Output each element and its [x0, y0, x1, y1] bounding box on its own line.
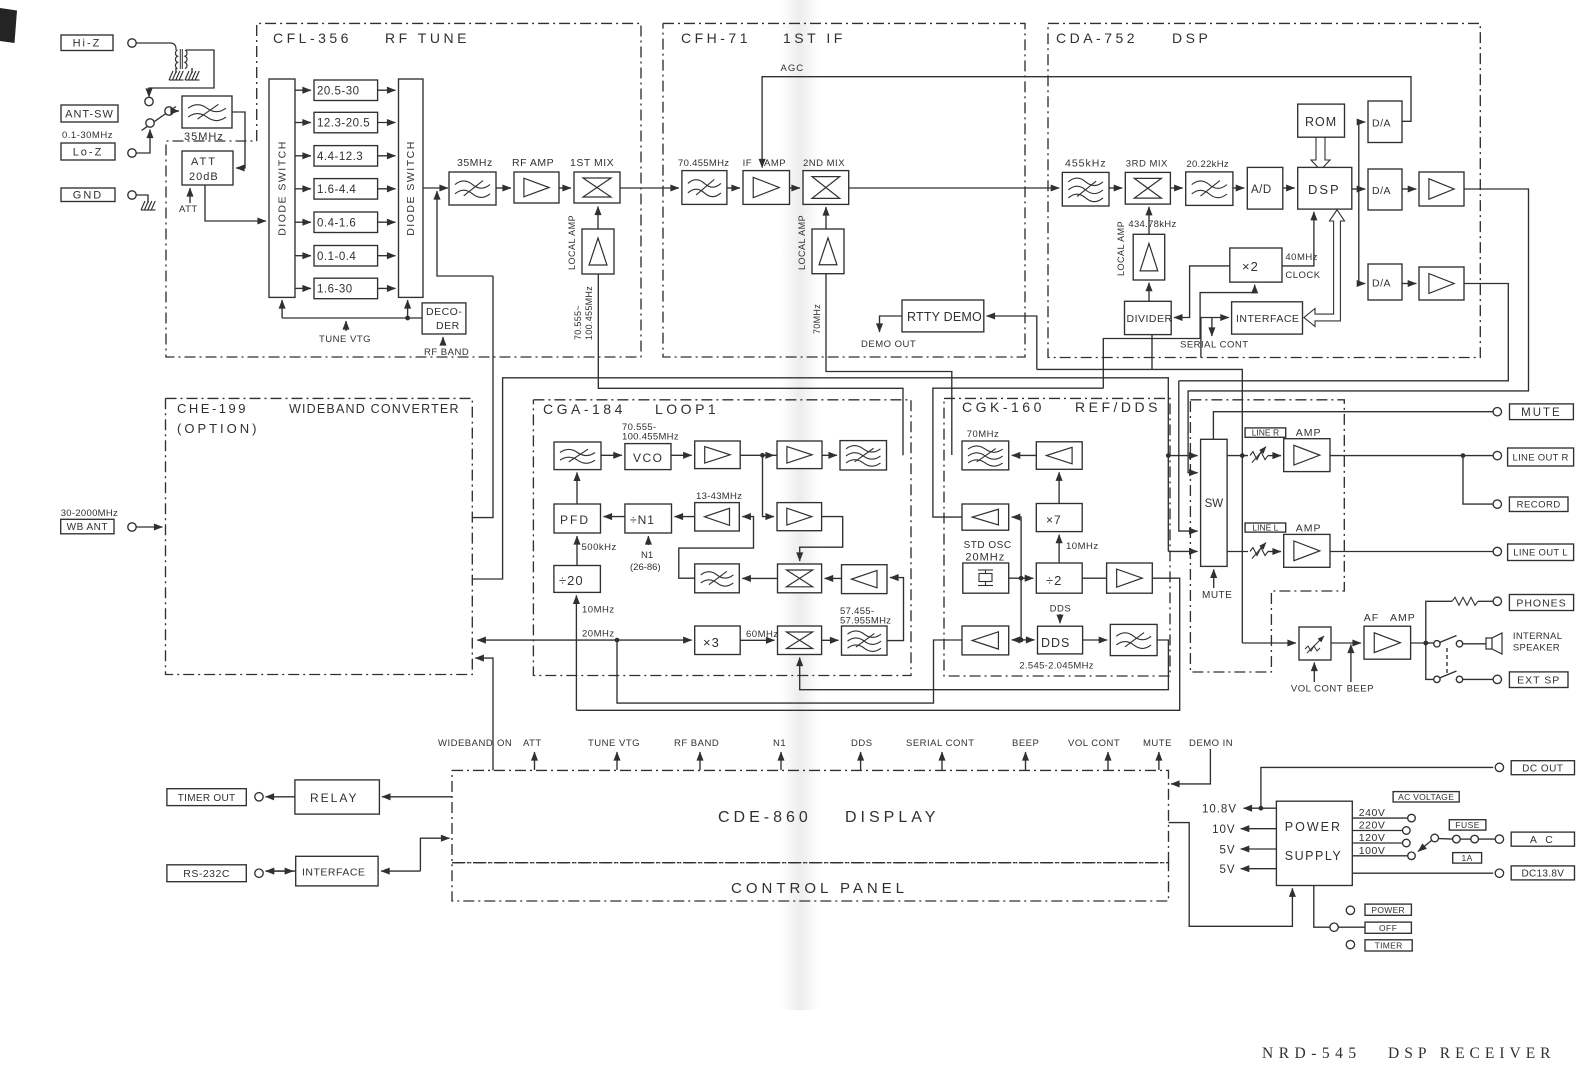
wire A/D to DSP: [1283, 187, 1295, 189]
wire SW input1 arrow: [1168, 455, 1197, 457]
wire pot R to amp R: [1268, 455, 1281, 457]
wire divider to local amp3: [1148, 283, 1150, 302]
wire tune bus arrow into right diode switch: [407, 300, 409, 318]
wire mixerA to filter3: [742, 577, 777, 579]
terminal DC OUT: [1495, 763, 1503, 771]
amp local 3 CDA: [1133, 234, 1165, 280]
wire 5V output 2: [1241, 868, 1277, 870]
wire div2 to x7: [1058, 535, 1060, 563]
wire display to relay: [382, 796, 452, 798]
wire into volume pot: [1242, 642, 1296, 644]
wire Hi-Z to transformer: [136, 43, 176, 50]
svg-text:3RD MIX: 3RD MIX: [1126, 159, 1168, 170]
control arrow RF BAND: [699, 752, 701, 770]
amp G3: [962, 626, 1009, 655]
amp buffer1 loop: [695, 441, 741, 469]
filter3 loop: [695, 564, 740, 593]
svg-text:CFL-356: CFL-356: [273, 30, 352, 46]
svg-text:0.4-1.6: 0.4-1.6: [317, 217, 356, 229]
svg-text:LINE R: LINE R: [1252, 428, 1279, 438]
terminal 120V: [1403, 839, 1411, 847]
speaker symbol: [1486, 633, 1502, 654]
svg-text:RF TUNE: RF TUNE: [385, 30, 470, 46]
wire wideband join riser to main RF row: [437, 191, 493, 276]
wire 1st mix to 70.455MHz filter: [620, 187, 679, 189]
svg-text:AMP: AMP: [764, 158, 786, 169]
svg-text:ATT: ATT: [179, 204, 198, 215]
filter 20.22kHz: [1186, 172, 1233, 206]
wire 2nd mix to 455kHz filter: [849, 187, 1060, 189]
wire into band filter 0.4-1.6: [295, 221, 311, 223]
wire loop filter to VCO: [601, 454, 622, 456]
terminal ANT-SW: [61, 105, 118, 122]
svg-text:LINE OUT L: LINE OUT L: [1513, 548, 1568, 559]
svg-text:CFH-71: CFH-71: [681, 30, 751, 46]
svg-text:DC OUT: DC OUT: [1522, 763, 1563, 774]
junction 20MHz cgk: [1019, 576, 1024, 581]
wire ATT input into left diode switch: [205, 185, 266, 221]
svg-text:WIDEBAND CONVERTER: WIDEBAND CONVERTER: [289, 402, 460, 416]
svg-text:70MHz: 70MHz: [967, 429, 1000, 440]
terminal DC13.8V: [1495, 869, 1503, 877]
svg-text:IF: IF: [743, 158, 752, 169]
svg-text:CGK-160: CGK-160: [962, 399, 1045, 415]
wire transformer secondary loop: [149, 50, 214, 97]
mixer 1ST MIX: [574, 172, 620, 203]
wire DSP branch to lower D/A: [1359, 189, 1366, 284]
terminal LINE OUT L: [1493, 547, 1501, 555]
svg-text:N1: N1: [773, 738, 786, 749]
svg-text:TIMER: TIMER: [1375, 940, 1403, 950]
wire 455kHz filter to 3rd mix: [1109, 187, 1122, 189]
multiplier x7: [1036, 504, 1082, 532]
svg-text:CLOCK: CLOCK: [1285, 270, 1320, 281]
wire div2 to buffer: [1082, 577, 1106, 579]
mixer 3RD MIX: [1125, 172, 1170, 204]
amp tap loop: [777, 503, 822, 531]
svg-text:SERIAL CONT: SERIAL CONT: [906, 738, 975, 749]
svg-text:2.545-2.045MHz: 2.545-2.045MHz: [1019, 661, 1093, 672]
memory ROM: [1298, 104, 1345, 137]
multiplier x3: [695, 626, 741, 655]
terminal LINE OUT R: [1493, 451, 1501, 459]
wire 10MHz into div20: [575, 595, 577, 710]
ground transformer primary: [175, 68, 177, 73]
junction line R tap: [1240, 453, 1245, 458]
svg-text:20MHz: 20MHz: [582, 629, 615, 640]
svg-text:MUTE: MUTE: [1143, 738, 1172, 749]
bus riser to RTTY demod: [1037, 369, 1243, 380]
page fold shading: [781, 0, 819, 1010]
ground transformer secondary: [191, 68, 193, 73]
switch OFF contact line: [1339, 926, 1366, 928]
switch box SW: [1201, 439, 1228, 566]
terminal EXT SP: [1493, 675, 1501, 683]
svg-text:AMP: AMP: [1390, 612, 1416, 624]
resistor phones: [1452, 597, 1478, 605]
terminal PHONES: [1493, 597, 1501, 605]
svg-text:AGC: AGC: [781, 63, 805, 74]
wire MUTE from SW to terminal: [1213, 412, 1493, 440]
converter D/A mid: [1368, 169, 1402, 210]
svg-text:20.5-30: 20.5-30: [317, 85, 360, 97]
wire 5V output 1: [1241, 848, 1277, 850]
divider 20: [554, 566, 601, 593]
wire low D/A to amp: [1402, 283, 1416, 285]
control arrow TUNE VTG: [616, 752, 618, 770]
svg-text:AMP: AMP: [1296, 427, 1322, 439]
amp AF: [1364, 626, 1411, 659]
wire 70.455 filter to IF amp: [727, 187, 740, 189]
svg-text:SW: SW: [1205, 498, 1224, 510]
svg-text:DIVIDER: DIVIDER: [1127, 313, 1173, 325]
divider N1: [625, 504, 672, 533]
svg-text:(26-86): (26-86): [630, 562, 661, 573]
svg-text:CGA-184: CGA-184: [543, 401, 626, 417]
svg-text:5V: 5V: [1220, 864, 1236, 876]
module frame CGA-184 LOOP1: [533, 400, 911, 676]
svg-text:1ST IF: 1ST IF: [783, 30, 846, 46]
switch ext speaker: [1434, 676, 1440, 682]
wire div20 to PFD 500kHz: [576, 536, 578, 566]
wire band filter 1.6-4.4 out: [378, 188, 396, 190]
svg-text:INTERFACE: INTERFACE: [1236, 313, 1299, 325]
module frame CDE-860 DISPLAY: [452, 770, 1169, 862]
wire 10MHz distribution from CGK buffer: [576, 578, 1179, 710]
terminal POWER switch: [1346, 906, 1354, 914]
svg-text:35MHz: 35MHz: [184, 131, 224, 143]
svg-text:434.78kHz: 434.78kHz: [1128, 219, 1176, 230]
junction DDS drive: [1019, 638, 1024, 643]
junction AF out: [1423, 641, 1428, 646]
svg-text:120V: 120V: [1359, 832, 1386, 844]
svg-text:PFD: PFD: [560, 513, 590, 527]
wire amp5 to mixerA: [825, 577, 842, 579]
pfd box: [554, 504, 601, 533]
svg-text:VOL CONT: VOL CONT: [1068, 738, 1120, 749]
wire RTTY demod input from D/A bus: [987, 316, 1037, 369]
svg-text:CHE-199: CHE-199: [177, 401, 248, 416]
svg-text:ROM: ROM: [1305, 115, 1337, 129]
wire into band filter 1.6-30: [295, 287, 311, 289]
control arrow N1: [780, 752, 782, 770]
wire antenna switch to 35MHz filter: [173, 110, 179, 112]
divider 2: [1036, 563, 1082, 593]
svg-text:×3: ×3: [703, 635, 720, 650]
wire vco tap down to amp3: [763, 455, 775, 516]
wire SW mute control arrow: [1213, 569, 1215, 588]
hollow arrow DSP-interface link: [1304, 210, 1345, 327]
selector arm: [1418, 841, 1432, 852]
wire filter3 elbow to amp4: [679, 517, 754, 579]
wire band filter 1.6-30 out: [378, 287, 396, 289]
wire mid D/A to amp: [1402, 188, 1416, 190]
wire to internal speaker: [1463, 643, 1486, 645]
wire Lo-Z to switch: [136, 130, 150, 154]
filter loop out: [840, 441, 887, 470]
terminal A C: [1495, 835, 1503, 843]
svg-text:10MHz: 10MHz: [1066, 541, 1099, 552]
svg-text:ATT: ATT: [191, 156, 217, 168]
converter A/D: [1247, 167, 1283, 209]
svg-text:A C: A C: [1530, 834, 1556, 846]
wire phones branch: [1426, 601, 1452, 643]
amp IF AMP: [743, 171, 790, 205]
control arrow ATT: [534, 752, 536, 770]
svg-text:35MHz: 35MHz: [457, 157, 493, 169]
wire display power to supply: [1169, 823, 1293, 927]
wire interface to display: [381, 870, 420, 872]
wire 20MHz line to CHE: [477, 639, 617, 641]
svg-text:RF BAND: RF BAND: [674, 738, 719, 749]
svg-text:10.8V: 10.8V: [1202, 804, 1237, 816]
filter 35MHz input: [182, 96, 232, 128]
terminal 100V: [1408, 852, 1416, 860]
transformer T1: [175, 50, 187, 69]
svg-text:CDA-752: CDA-752: [1056, 30, 1138, 46]
wire amp G2 output riser to CDA: [933, 388, 1103, 517]
band filter 1.6-30: [314, 278, 378, 299]
amp line L: [1284, 534, 1330, 567]
svg-text:CDE-860: CDE-860: [718, 809, 812, 826]
wire PFD to loop filter: [576, 472, 578, 504]
svg-text:Lo-Z: Lo-Z: [73, 146, 104, 158]
bus D/A2 audio to SW input2: [1188, 189, 1528, 473]
svg-text:ANT-SW: ANT-SW: [65, 108, 114, 120]
pot line R: [1250, 452, 1268, 460]
oscillator VCO: [625, 444, 671, 470]
divider box: [1125, 301, 1172, 334]
svg-text:240V: 240V: [1359, 807, 1386, 819]
terminal RECORD: [1493, 500, 1501, 508]
amp5 loop: [842, 565, 888, 594]
wire into band filter 0.1-0.4: [295, 255, 311, 257]
svg-text:RF AMP: RF AMP: [512, 157, 554, 169]
amp line R: [1284, 439, 1330, 472]
label LINE L: [1245, 523, 1286, 532]
svg-text:LOCAL AMP: LOCAL AMP: [1116, 221, 1126, 276]
svg-text:AC VOLTAGE: AC VOLTAGE: [1398, 792, 1454, 802]
svg-text:÷20: ÷20: [559, 573, 584, 588]
wire record drop: [1463, 456, 1493, 505]
wire into band filter 1.6-4.4: [295, 188, 311, 190]
wire DSP to D/A branch: [1352, 188, 1366, 190]
svg-text:÷2: ÷2: [1046, 573, 1062, 588]
svg-text:A/D: A/D: [1251, 184, 1272, 196]
svg-text:10V: 10V: [1212, 824, 1235, 836]
svg-text:DEMO OUT: DEMO OUT: [861, 339, 916, 350]
diode switch left: [269, 79, 295, 297]
svg-text:POWER: POWER: [1371, 905, 1405, 915]
wire vol cont annotation arrow: [1313, 663, 1315, 683]
svg-text:RS-232C: RS-232C: [183, 868, 230, 880]
wire demo in from display: [1171, 749, 1210, 784]
bus V2 to SW input3: [1179, 381, 1198, 531]
svg-text:RF BAND: RF BAND: [424, 347, 469, 358]
svg-text:MUTE: MUTE: [1202, 590, 1232, 601]
svg-text:WIDEBAND: WIDEBAND: [438, 738, 493, 749]
svg-text:455kHz: 455kHz: [1065, 158, 1107, 170]
svg-text:LOCAL AMP: LOCAL AMP: [567, 215, 577, 270]
wire x2 to DSP clock: [1282, 212, 1314, 266]
svg-text:BEEP: BEEP: [1347, 684, 1374, 695]
junction record tap: [1461, 453, 1466, 458]
svg-text:SPEAKER: SPEAKER: [1513, 643, 1560, 654]
wire crystal to div2: [1009, 577, 1034, 579]
demodulator RTTY DEMO: [902, 300, 984, 332]
wire amp G1 to 70MHz filter: [1012, 454, 1037, 456]
svg-text:DDS: DDS: [1050, 604, 1072, 615]
svg-text:D/A: D/A: [1372, 278, 1391, 290]
wire into band filter 12.3-20.5: [295, 122, 311, 124]
bus D/A3 output to RTTY and SW: [1179, 284, 1509, 381]
filter 70.455MHz: [682, 171, 727, 205]
terminal MUTE: [1493, 408, 1501, 416]
svg-text:0.1-30MHz: 0.1-30MHz: [62, 130, 113, 141]
switch antenna common contact: [165, 107, 173, 115]
amp G1: [1036, 442, 1082, 470]
terminal Hi-Z: [61, 35, 113, 51]
ground GND terminal: [141, 201, 145, 210]
wire band filter 0.4-1.6 out: [378, 221, 396, 223]
svg-text:SERIAL CONT: SERIAL CONT: [1180, 340, 1249, 351]
wire amp3 elbow to mixerA: [800, 517, 843, 561]
band filter 20.5-30: [314, 80, 378, 101]
module frame CFL-356 RF TUNE: [166, 23, 641, 357]
svg-text:REF/DDS: REF/DDS: [1075, 399, 1161, 415]
svg-text:AMP: AMP: [1296, 523, 1322, 535]
label FUSE: [1449, 820, 1486, 830]
svg-text:LOOP1: LOOP1: [655, 401, 719, 417]
mixer A loop: [778, 564, 822, 593]
svg-text:DDS: DDS: [1041, 636, 1070, 650]
svg-text:4.4-12.3: 4.4-12.3: [317, 151, 363, 163]
terminal 220V: [1403, 827, 1411, 835]
amp buffer cgk: [1107, 563, 1153, 593]
svg-text:ON: ON: [497, 738, 512, 749]
svg-text:1A: 1A: [1461, 853, 1472, 863]
wire DDS to filter5: [1083, 639, 1108, 641]
svg-text:×2: ×2: [1242, 259, 1259, 274]
label AC VOLTAGE: [1393, 792, 1459, 802]
control arrow MUTE: [1158, 752, 1160, 770]
filter 70MHz cgk: [962, 441, 1009, 470]
wire loop1 LO feed to local amp1: [598, 274, 903, 455]
svg-text:RECORD: RECORD: [1517, 500, 1561, 511]
wire band filter 0.1-0.4 out: [378, 255, 396, 257]
dds box: [1038, 626, 1083, 654]
terminal TIMER OUT: [167, 789, 246, 806]
wire 3rd mix to 20.22kHz filter: [1170, 187, 1182, 189]
svg-text:Hi-Z: Hi-Z: [73, 38, 102, 50]
switch arm antenna: [142, 107, 177, 131]
wire 20.22kHz filter to A/D: [1233, 187, 1244, 189]
svg-text:DIODE SWITCH: DIODE SWITCH: [405, 140, 417, 236]
filter loop: [554, 442, 601, 470]
wire x7 to amp G1: [1058, 472, 1060, 503]
wire 10.8V output: [1244, 807, 1277, 809]
module frame CFH-71 1ST IF: [663, 23, 1025, 357]
label LINE R: [1245, 428, 1286, 437]
junction dc out tap: [1259, 806, 1264, 811]
wire beep riser: [1350, 645, 1352, 683]
wire DDS filter to mixerB: [800, 640, 1169, 690]
svg-text:13-43MHz: 13-43MHz: [696, 491, 742, 502]
svg-text:100V: 100V: [1359, 845, 1386, 857]
svg-text:500kHz: 500kHz: [582, 542, 617, 553]
wire main RF row CFL: [423, 187, 448, 189]
svg-text:N1: N1: [641, 550, 653, 561]
band filter 1.6-4.4: [314, 179, 378, 200]
wire ATT control arrow: [189, 188, 191, 203]
svg-text:DSP RECEIVER: DSP RECEIVER: [1388, 1045, 1556, 1062]
terminal Lo-Z: [61, 143, 115, 160]
bus audio feed down to AF volume: [1241, 381, 1243, 643]
wire RTTY demod output to DEMO OUT: [880, 316, 903, 332]
wire DC OUT line: [1261, 767, 1493, 808]
wire band filter 4.4-12.3 out: [378, 155, 396, 157]
svg-text:TIMER OUT: TIMER OUT: [178, 793, 236, 804]
wire pot L to amp L: [1268, 551, 1281, 553]
wire filter to ATT: [232, 112, 245, 168]
mixer 2ND MIX: [803, 171, 849, 205]
module frame CHE-199 WIDEBAND CONVERTER: [166, 398, 473, 674]
svg-text:RTTY DEMO: RTTY DEMO: [907, 310, 982, 324]
converter D/A low: [1368, 264, 1402, 300]
filter5 dds: [1110, 624, 1157, 655]
wire serial cont annotation arrow: [1211, 318, 1213, 337]
svg-text:D/A: D/A: [1372, 185, 1391, 197]
wire SW input4 arrow: [1168, 550, 1197, 552]
terminal RS-232C: [167, 865, 246, 882]
wire 20MHz down to DDS junction: [1020, 578, 1022, 640]
svg-text:AF: AF: [1364, 612, 1379, 624]
svg-text:DSP: DSP: [1308, 182, 1341, 197]
svg-text:100.455MHz: 100.455MHz: [584, 286, 594, 340]
multiplier x2: [1230, 248, 1282, 282]
amp after D/A mid: [1419, 172, 1464, 206]
amp after D/A low: [1419, 267, 1464, 300]
wire speaker switch feed: [1426, 642, 1433, 644]
band filter 0.1-0.4: [314, 246, 378, 267]
label 1A: [1453, 853, 1482, 864]
wire to ext sp terminal: [1463, 678, 1493, 680]
wire GND to ground: [136, 195, 148, 203]
svg-text:STD OSC: STD OSC: [964, 540, 1012, 551]
control arrow DDS: [860, 752, 862, 770]
switch internal speaker: [1434, 641, 1440, 647]
band filter 4.4-12.3: [314, 146, 378, 167]
wire relay to timer out: [266, 796, 295, 798]
svg-text:LINE OUT R: LINE OUT R: [1513, 452, 1569, 463]
wire DSP branch to upper D/A: [1359, 122, 1366, 189]
svg-text:ATT: ATT: [523, 738, 542, 749]
wire amp4 to divN1: [675, 516, 695, 518]
amp G2: [962, 504, 1009, 530]
diode switch right: [399, 79, 424, 297]
fuse link: [1439, 838, 1453, 841]
filter 455kHz: [1062, 172, 1109, 206]
svg-text:DISPLAY: DISPLAY: [845, 809, 939, 826]
wire x2 tap to divider: [1174, 266, 1230, 318]
wire into band filter 4.4-12.3: [295, 155, 311, 157]
module frame CDA-752 DSP: [1048, 23, 1480, 357]
terminal OFF switch: [1330, 923, 1338, 931]
svg-text:CONTROL PANEL: CONTROL PANEL: [731, 880, 908, 897]
relay box: [295, 780, 380, 814]
module frame audio line-out section: [1190, 400, 1344, 672]
svg-text:5V: 5V: [1220, 844, 1236, 856]
